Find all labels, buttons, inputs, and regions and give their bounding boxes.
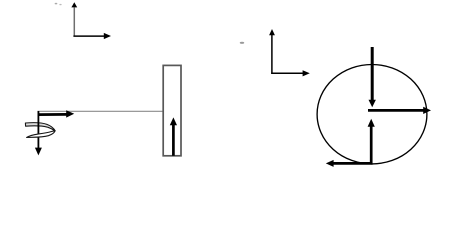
axes1 horizontal line (x-axis): [73, 35, 104, 37]
speck mid: [240, 42, 244, 44]
speck near top axes: [55, 3, 58, 5]
axes2 x arrowhead: [303, 70, 310, 76]
up arrow inside bar: shaft: [172, 125, 175, 156]
wheel center right-arrow head: [423, 107, 431, 114]
corner joint of rod arrows: [37, 111, 39, 116]
wheel center right-arrow shaft: [368, 109, 424, 112]
spin axis down arrowhead: [35, 148, 42, 156]
spin axis vertical line (over back band, under front band): [37, 113, 39, 149]
wheel bottom up-arrow shaft: [370, 126, 373, 164]
axes2 vertical line (y-axis): [271, 35, 273, 74]
ribbon front band (lower, white): [27, 131, 55, 138]
ribbon back band (upper, gray): [25, 123, 55, 131]
tall bar rectangle: [163, 65, 181, 155]
long thin gray rod line to the bar: [38, 110, 164, 112]
thick horizontal arrow head: [66, 110, 74, 117]
axes1 x arrowhead: [104, 33, 111, 39]
axes1 vertical line (y-axis, gray): [73, 8, 75, 37]
speck 2: [59, 4, 61, 5]
wheel top down-arrow head: [369, 100, 376, 107]
wheel bottom left-arrow shaft: [333, 162, 373, 165]
up arrow inside bar: head: [170, 117, 177, 125]
axes2 horizontal line (x-axis): [271, 72, 303, 74]
wheel bottom left-arrow head: [326, 160, 334, 167]
axes1 y arrowhead: [71, 2, 77, 7]
circle (wheel): [317, 65, 427, 164]
thick horizontal arrow at rod: shaft: [38, 113, 68, 116]
axes2 y arrowhead: [269, 29, 275, 35]
wheel top down-arrow shaft: [371, 47, 374, 101]
wheel bottom up-arrow head: [368, 119, 375, 127]
